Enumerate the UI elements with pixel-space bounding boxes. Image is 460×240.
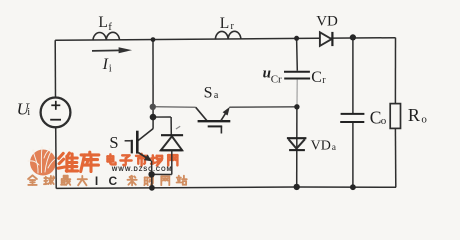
svg-text:WWW.DZSC.COM: WWW.DZSC.COM (112, 167, 173, 173)
svg-text:I: I (95, 174, 98, 188)
svg-text:S: S (109, 133, 118, 152)
svg-text:Cr: Cr (271, 74, 282, 86)
svg-text:C: C (311, 69, 322, 86)
svg-text:i: i (109, 63, 112, 74)
svg-text:u: u (263, 66, 271, 82)
svg-text:C: C (370, 108, 382, 128)
svg-text:I: I (102, 56, 109, 73)
svg-text:VD: VD (316, 14, 338, 30)
svg-text:L: L (98, 14, 107, 31)
svg-text:C: C (109, 174, 118, 188)
svg-text:i: i (27, 107, 30, 118)
svg-text:R: R (408, 105, 420, 125)
svg-text:o: o (381, 115, 387, 127)
svg-text:o: o (421, 114, 427, 126)
svg-text:L: L (220, 15, 229, 32)
svg-text:f: f (108, 21, 112, 33)
svg-text:S: S (204, 84, 213, 101)
svg-text:a: a (214, 90, 219, 101)
svg-text:VD: VD (311, 139, 331, 154)
